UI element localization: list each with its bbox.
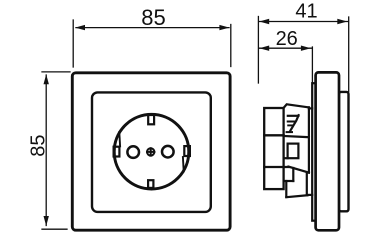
dimension 41: left extension line (257, 17, 259, 84)
socket pot: top guide notch (148, 115, 154, 124)
mechanism: top connector to strip (309, 107, 312, 109)
mechanism: lower claw right edge (306, 173, 308, 195)
mechanism: upper claw tooth 2 (288, 124, 292, 126)
dimension 85 vertical: top extension line (42, 71, 70, 73)
socket pot circle (114, 114, 189, 189)
mechanism: terminal bottom lip (285, 157, 288, 159)
dimension 85 vertical: bottom extension line (42, 228, 67, 230)
mechanism: main box (264, 108, 283, 189)
dimension 26: line (259, 47, 311, 49)
dimension 85 vertical: top arrow (44, 74, 49, 84)
dimension 85 horizontal: left arrow (75, 25, 85, 30)
dimension 85 horizontal: right arrow (219, 25, 229, 30)
mechanism: notch horizontal (284, 180, 293, 182)
mechanism: upper claw tooth 1 (288, 121, 295, 123)
mechanism: housing right edge (308, 107, 310, 172)
NW wedge line (118, 132, 121, 146)
side view: central dome (socket front) (339, 92, 349, 211)
left pin hole (127, 146, 139, 158)
dimension 85 horizontal: right extension line (230, 25, 232, 67)
mechanism: lower housing bottom edge (286, 195, 307, 197)
dimension 85 vertical: line (45, 75, 47, 226)
dimension 41: line (259, 21, 347, 23)
mechanism: bottom connector to strip (308, 194, 313, 196)
dimension 26: left arrow (259, 46, 269, 51)
mechanism: notch vertical (292, 168, 294, 181)
dimension 41: left arrow (259, 19, 269, 24)
svg-text:41: 41 (295, 0, 317, 22)
socket pot: right side notch (184, 146, 190, 156)
mechanism: divider B (264, 166, 288, 168)
SE wedge line (182, 157, 185, 171)
front view: inner raised frame (92, 92, 211, 211)
mechanism: terminal block (288, 144, 299, 159)
svg-text:85: 85 (28, 134, 50, 156)
mechanism: upper claw diagonal (290, 115, 299, 131)
front view: outer cover plate 85x85 (72, 73, 230, 230)
socket pot: left side notch (114, 147, 120, 157)
mechanism: upper claw top bar (288, 115, 299, 117)
mechanism: upper claw base line (287, 131, 292, 133)
dimension 85 vertical: bottom arrow (44, 216, 49, 226)
dimension 26: right arrow (301, 46, 311, 51)
mechanism: lower-left vertical (285, 181, 287, 197)
right pin hole (162, 146, 174, 158)
dimension 41: right arrow (337, 19, 347, 24)
dimension 85 horizontal: line (76, 27, 229, 29)
side view: claw support strip (Tragring) (312, 83, 315, 221)
svg-text:26: 26 (276, 28, 298, 50)
dimension 41: right extension line (348, 17, 350, 92)
mechanism: lower claw diagonal (288, 167, 309, 173)
socket pot: bottom guide notch (148, 180, 153, 188)
dimension 26: right extension line (311, 47, 313, 84)
side view: cover plate profile (316, 72, 339, 230)
svg-text:85: 85 (141, 5, 165, 30)
mechanism: housing top edge (284, 104, 309, 108)
dimension 85 horizontal: left extension line (72, 20, 74, 67)
center screw (147, 148, 154, 155)
mechanism: divider A (264, 134, 283, 136)
mechanism: divider C (284, 136, 309, 137)
